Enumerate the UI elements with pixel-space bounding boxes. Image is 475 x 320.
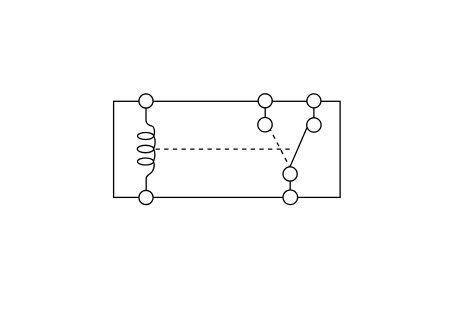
coil winding (relay coil): [137, 126, 155, 171]
dashed: armature alternate throw: [269, 127, 290, 167]
dashed: actuation link from coil: [156, 148, 294, 150]
pin 2 (coil, bottom): [139, 190, 153, 204]
contact point: NC: [258, 118, 272, 132]
pin: NC terminal (top middle): [258, 94, 272, 108]
wire: common lead: [289, 174, 291, 197]
wire: NC contact stub: [264, 101, 266, 124]
pin: common (bottom): [283, 190, 298, 205]
armature pivot node: [283, 167, 297, 181]
wire: coil bottom lead to pin 2: [146, 172, 152, 198]
pin 1 (coil, top): [139, 94, 153, 108]
pin: NO terminal (top right): [307, 94, 321, 108]
wire: coil top lead from pin 1: [146, 101, 153, 126]
armature (moving contact, closed side): [290, 128, 307, 167]
wire: NO contact stub: [313, 101, 315, 125]
relay K1 body outline: [114, 101, 341, 197]
contact point: NO: [307, 118, 321, 132]
